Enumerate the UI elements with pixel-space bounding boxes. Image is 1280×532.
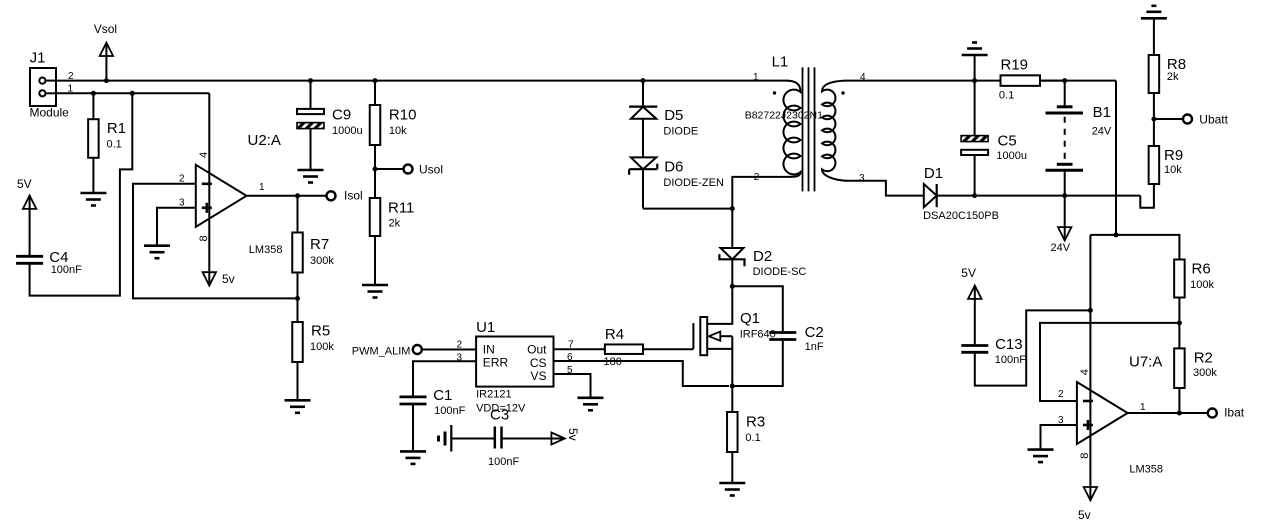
svg-text:100nF: 100nF <box>995 354 1026 366</box>
svg-text:3: 3 <box>179 198 185 209</box>
svg-text:VS: VS <box>530 369 546 383</box>
svg-text:DIODE-SC: DIODE-SC <box>753 266 807 278</box>
svg-text:R2: R2 <box>1194 349 1213 366</box>
svg-text:Usol: Usol <box>419 163 443 177</box>
svg-text:180: 180 <box>604 356 622 368</box>
svg-text:4: 4 <box>1079 369 1091 375</box>
svg-text:100k: 100k <box>310 341 334 353</box>
svg-text:10k: 10k <box>389 125 407 137</box>
svg-text:D5: D5 <box>664 107 683 124</box>
svg-text:ERR: ERR <box>483 356 509 370</box>
svg-text:2k: 2k <box>1167 71 1179 83</box>
svg-text:C13: C13 <box>995 336 1023 353</box>
svg-text:1: 1 <box>753 72 759 83</box>
svg-text:D6: D6 <box>664 159 683 176</box>
svg-text:300k: 300k <box>1193 367 1217 379</box>
svg-text:U7:A: U7:A <box>1129 354 1162 371</box>
svg-text:R7: R7 <box>310 236 329 253</box>
svg-text:IR2121: IR2121 <box>476 389 511 401</box>
svg-text:0.1: 0.1 <box>745 432 760 444</box>
svg-text:Isol: Isol <box>344 189 363 203</box>
svg-text:C2: C2 <box>805 324 824 341</box>
svg-text:Module: Module <box>30 106 70 120</box>
svg-text:PWM_ALIM: PWM_ALIM <box>352 346 411 358</box>
svg-text:0.1: 0.1 <box>107 139 122 151</box>
svg-text:3: 3 <box>859 173 865 184</box>
svg-text:C9: C9 <box>332 107 351 124</box>
svg-text:2: 2 <box>1058 389 1064 400</box>
svg-text:2: 2 <box>179 174 185 185</box>
svg-text:R19: R19 <box>1001 56 1029 73</box>
svg-text:1: 1 <box>259 182 265 193</box>
svg-text:U1: U1 <box>476 319 495 336</box>
svg-text:DSA20C150PB: DSA20C150PB <box>923 210 999 222</box>
svg-text:C3: C3 <box>490 407 509 424</box>
svg-text:4: 4 <box>198 152 210 158</box>
svg-text:R6: R6 <box>1192 261 1211 278</box>
svg-text:C5: C5 <box>998 133 1017 150</box>
svg-text:D2: D2 <box>753 248 772 265</box>
svg-text:DIODE-ZEN: DIODE-ZEN <box>663 177 724 189</box>
svg-text:1000u: 1000u <box>332 125 363 137</box>
svg-text:IN: IN <box>483 342 495 356</box>
svg-text:5v: 5v <box>222 272 235 286</box>
svg-text:2: 2 <box>457 340 463 351</box>
svg-text:B1: B1 <box>1093 104 1111 121</box>
svg-text:5V: 5V <box>961 266 976 280</box>
svg-text:L1: L1 <box>772 53 789 70</box>
svg-text:R11: R11 <box>388 200 414 217</box>
svg-text:10k: 10k <box>1164 164 1182 176</box>
svg-text:R10: R10 <box>389 107 417 124</box>
svg-text:8: 8 <box>1079 453 1091 459</box>
svg-text:100k: 100k <box>1190 279 1214 291</box>
svg-text:24V: 24V <box>1051 242 1071 254</box>
svg-text:1: 1 <box>1140 402 1146 413</box>
svg-text:100nF: 100nF <box>434 405 465 417</box>
svg-text:100nF: 100nF <box>51 264 82 276</box>
svg-text:R5: R5 <box>311 323 330 340</box>
svg-text:B82722J2302N1: B82722J2302N1 <box>745 110 823 122</box>
svg-text:5v: 5v <box>1078 508 1091 522</box>
svg-text:R3: R3 <box>746 414 765 431</box>
svg-text:U2:A: U2:A <box>248 132 281 149</box>
svg-text:Q1: Q1 <box>740 310 760 327</box>
svg-text:LM358: LM358 <box>249 244 283 256</box>
svg-text:8: 8 <box>198 235 210 241</box>
svg-text:100nF: 100nF <box>488 456 519 468</box>
svg-text:5v: 5v <box>566 428 580 441</box>
svg-text:1000u: 1000u <box>996 150 1027 162</box>
svg-text:R9: R9 <box>1164 147 1183 164</box>
svg-text:DIODE: DIODE <box>663 126 698 138</box>
svg-text:Ibat: Ibat <box>1224 406 1245 420</box>
svg-text:3: 3 <box>1058 415 1064 426</box>
svg-text:D1: D1 <box>924 165 943 182</box>
svg-text:Ubatt: Ubatt <box>1199 113 1228 127</box>
svg-text:LM358: LM358 <box>1129 464 1163 476</box>
svg-text:C1: C1 <box>433 387 452 404</box>
svg-text:Out: Out <box>527 342 547 356</box>
svg-text:24V: 24V <box>1092 126 1112 138</box>
svg-text:J1: J1 <box>30 50 46 67</box>
svg-text:0.1: 0.1 <box>999 90 1014 102</box>
svg-text:R1: R1 <box>107 120 126 137</box>
svg-text:1nF: 1nF <box>805 341 824 353</box>
svg-text:R4: R4 <box>605 326 624 343</box>
svg-text:CS: CS <box>530 356 547 370</box>
svg-text:Vsol: Vsol <box>94 22 117 36</box>
svg-text:2: 2 <box>754 172 760 183</box>
svg-text:5V: 5V <box>17 177 32 191</box>
svg-text:2k: 2k <box>389 218 401 230</box>
svg-text:300k: 300k <box>310 255 334 267</box>
